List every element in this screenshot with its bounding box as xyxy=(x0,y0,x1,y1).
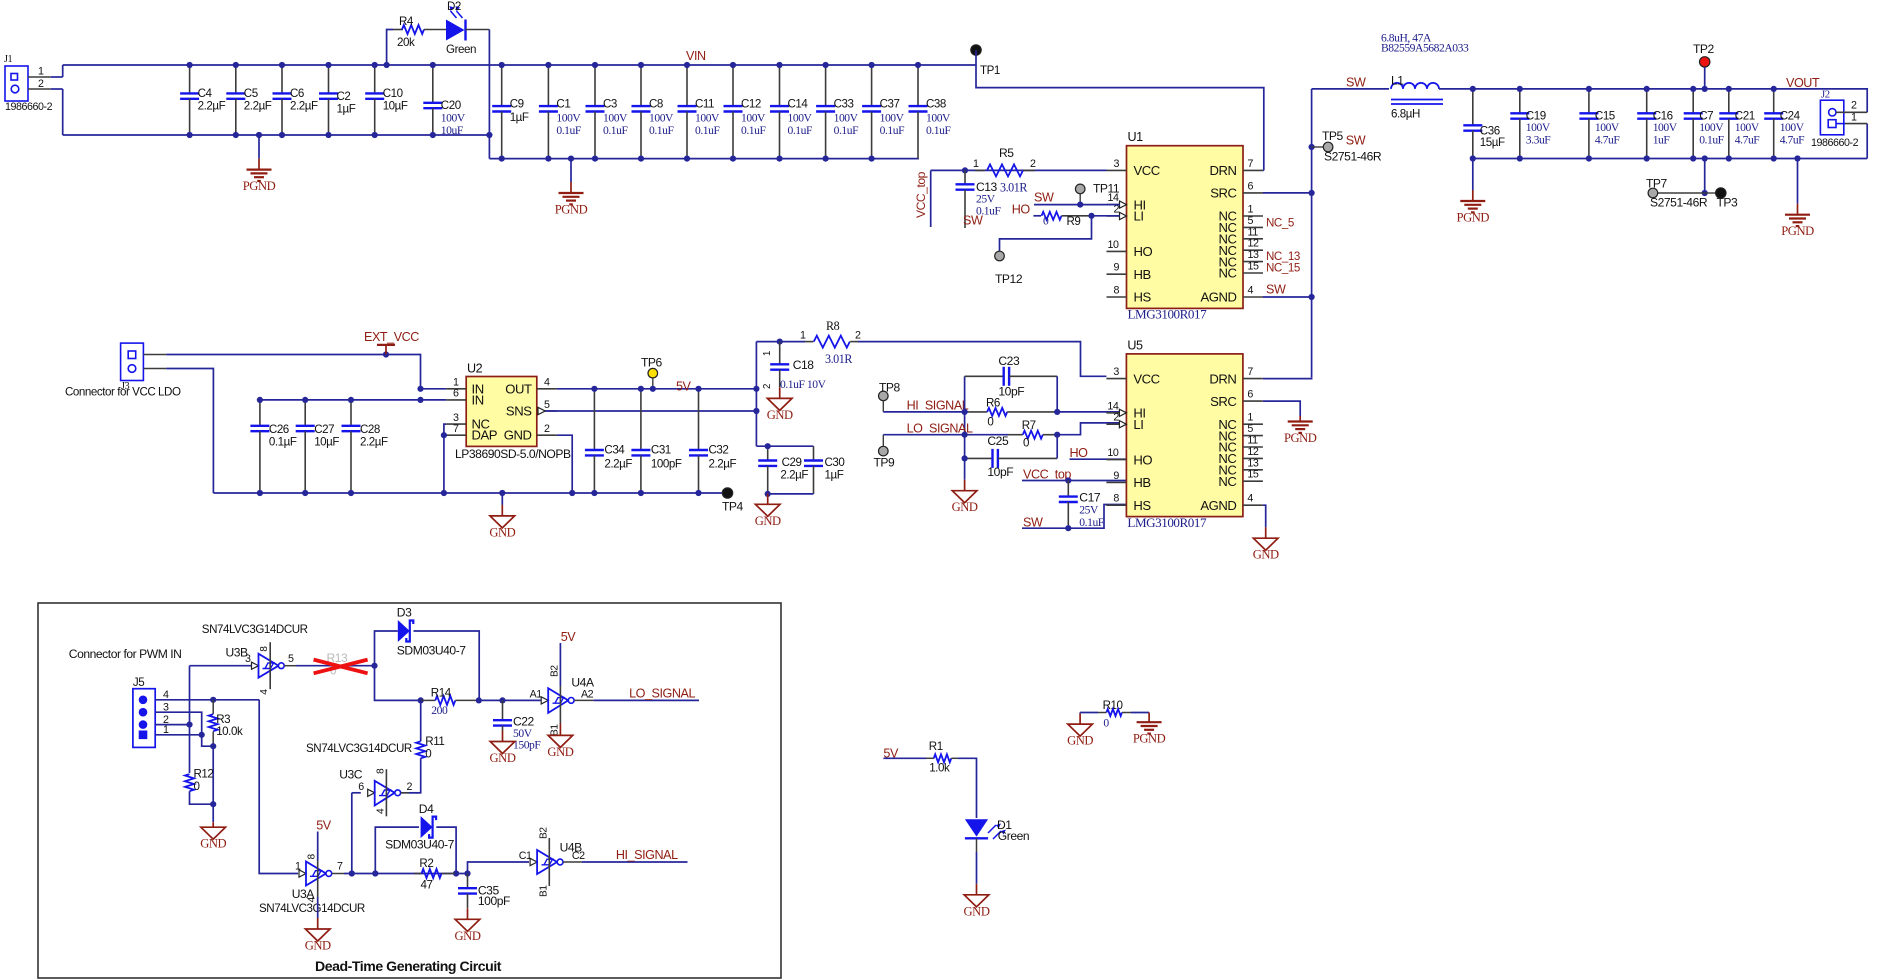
svg-text:GND: GND xyxy=(1253,548,1279,562)
svg-text:1.0k: 1.0k xyxy=(929,762,950,775)
svg-text:7: 7 xyxy=(1247,366,1253,378)
svg-text:10: 10 xyxy=(1108,239,1119,251)
svg-text:AGND: AGND xyxy=(1200,498,1236,513)
svg-text:NC: NC xyxy=(1218,266,1236,281)
svg-text:5V: 5V xyxy=(676,380,692,394)
svg-text:R12: R12 xyxy=(194,768,214,781)
svg-text:6.8µH: 6.8µH xyxy=(1391,108,1420,121)
svg-text:9: 9 xyxy=(1114,262,1120,274)
svg-text:8: 8 xyxy=(375,768,386,774)
svg-text:0: 0 xyxy=(425,748,431,761)
svg-text:NC: NC xyxy=(1218,474,1236,489)
svg-text:D4: D4 xyxy=(419,802,434,816)
svg-text:4.7uF: 4.7uF xyxy=(1735,134,1760,147)
svg-text:8: 8 xyxy=(259,646,270,652)
svg-text:C29: C29 xyxy=(782,456,802,469)
svg-text:7: 7 xyxy=(337,861,343,873)
svg-text:0.1uF: 0.1uF xyxy=(788,124,813,137)
svg-text:A2: A2 xyxy=(581,689,594,701)
svg-text:B2: B2 xyxy=(538,827,549,839)
svg-text:B1: B1 xyxy=(538,885,549,897)
svg-text:2: 2 xyxy=(38,78,44,90)
svg-text:D2: D2 xyxy=(447,0,461,13)
svg-text:3.3uF: 3.3uF xyxy=(1526,134,1551,147)
svg-text:TP12: TP12 xyxy=(995,272,1023,286)
svg-text:2: 2 xyxy=(544,423,550,435)
svg-text:HI_SIGNAL: HI_SIGNAL xyxy=(616,848,678,862)
svg-text:TP1: TP1 xyxy=(980,64,1000,77)
svg-text:8: 8 xyxy=(1113,493,1119,505)
svg-text:C5: C5 xyxy=(244,87,258,100)
svg-text:0.1uF: 0.1uF xyxy=(1699,134,1724,147)
svg-text:0.1uF: 0.1uF xyxy=(1079,516,1104,529)
svg-text:J5: J5 xyxy=(133,676,144,689)
svg-text:C23: C23 xyxy=(998,354,1020,368)
svg-text:1: 1 xyxy=(38,66,44,78)
svg-text:SW: SW xyxy=(1346,76,1366,90)
svg-text:DRN: DRN xyxy=(1209,371,1236,386)
svg-text:0.1µF: 0.1µF xyxy=(269,436,297,449)
svg-text:Green: Green xyxy=(998,829,1029,843)
svg-text:2.2µF: 2.2µF xyxy=(709,458,737,471)
svg-text:100V: 100V xyxy=(1595,121,1620,134)
svg-text:TP2: TP2 xyxy=(1693,42,1715,56)
svg-text:DAP: DAP xyxy=(472,428,498,443)
svg-text:R11: R11 xyxy=(425,735,444,748)
svg-text:25V: 25V xyxy=(1079,504,1099,517)
svg-text:TP9: TP9 xyxy=(874,456,896,470)
svg-text:GND: GND xyxy=(455,929,481,943)
svg-text:1uF: 1uF xyxy=(1653,134,1671,147)
svg-text:HS: HS xyxy=(1133,498,1151,513)
svg-text:2.2µF: 2.2µF xyxy=(780,469,808,482)
svg-text:2: 2 xyxy=(1113,412,1119,424)
svg-text:10pF: 10pF xyxy=(987,465,1013,479)
svg-text:1: 1 xyxy=(1247,412,1253,424)
svg-text:3: 3 xyxy=(1113,366,1119,378)
svg-text:TP8: TP8 xyxy=(879,381,901,395)
svg-text:B2: B2 xyxy=(550,665,561,677)
svg-text:4: 4 xyxy=(259,689,270,695)
svg-text:U4A: U4A xyxy=(571,676,595,690)
svg-text:R8: R8 xyxy=(826,319,840,333)
svg-text:GND: GND xyxy=(504,428,532,443)
svg-text:GND: GND xyxy=(489,525,515,539)
svg-text:100pF: 100pF xyxy=(651,458,682,471)
svg-text:LO_SIGNAL: LO_SIGNAL xyxy=(629,687,695,701)
svg-text:VCC: VCC xyxy=(1134,163,1160,178)
svg-text:1µF: 1µF xyxy=(825,469,844,482)
svg-text:0.1uF: 0.1uF xyxy=(834,124,859,137)
svg-text:6: 6 xyxy=(1248,180,1254,192)
svg-text:GND: GND xyxy=(767,408,793,422)
svg-text:14: 14 xyxy=(1107,400,1118,412)
svg-text:A1: A1 xyxy=(530,689,543,701)
svg-text:5: 5 xyxy=(544,399,550,411)
svg-text:C14: C14 xyxy=(788,98,809,111)
svg-text:PGND: PGND xyxy=(1457,211,1490,225)
svg-text:100V: 100V xyxy=(695,112,720,125)
svg-text:5: 5 xyxy=(288,653,294,665)
svg-text:EXT_VCC: EXT_VCC xyxy=(364,330,419,344)
svg-text:2: 2 xyxy=(1030,158,1036,170)
svg-text:10µF: 10µF xyxy=(383,100,408,113)
svg-text:C34: C34 xyxy=(604,444,625,457)
svg-text:SN74LVC3G14DCUR: SN74LVC3G14DCUR xyxy=(259,902,365,915)
svg-text:0.1uF: 0.1uF xyxy=(695,124,720,137)
svg-text:SNS: SNS xyxy=(506,404,532,419)
svg-text:C17: C17 xyxy=(1079,491,1101,505)
svg-text:150pF: 150pF xyxy=(513,739,541,752)
svg-text:C37: C37 xyxy=(880,98,900,111)
svg-text:J1: J1 xyxy=(4,54,13,65)
svg-text:0.1uF: 0.1uF xyxy=(603,124,628,137)
svg-text:SRC: SRC xyxy=(1210,394,1236,409)
svg-text:GND: GND xyxy=(952,500,978,514)
svg-text:SN74LVC3G14DCUR: SN74LVC3G14DCUR xyxy=(202,623,308,636)
svg-text:C11: C11 xyxy=(695,98,714,111)
svg-text:1986660-2: 1986660-2 xyxy=(5,101,53,113)
svg-text:L1: L1 xyxy=(1391,74,1404,88)
svg-text:4.7uF: 4.7uF xyxy=(1595,134,1620,147)
svg-text:3.01R: 3.01R xyxy=(1000,181,1028,195)
svg-text:C1: C1 xyxy=(556,98,570,111)
svg-text:7: 7 xyxy=(1248,158,1254,170)
svg-text:100V: 100V xyxy=(788,112,813,125)
svg-text:15: 15 xyxy=(1247,469,1258,481)
svg-text:4: 4 xyxy=(544,377,550,389)
svg-text:100V: 100V xyxy=(1699,121,1724,134)
svg-text:R14: R14 xyxy=(431,687,452,700)
svg-text:12: 12 xyxy=(1248,238,1259,250)
svg-text:LMG3100R017: LMG3100R017 xyxy=(1127,515,1207,530)
svg-text:C28: C28 xyxy=(360,423,380,436)
svg-text:HO: HO xyxy=(1012,203,1031,217)
svg-text:U3C: U3C xyxy=(339,768,363,782)
svg-text:S2751-46R: S2751-46R xyxy=(1324,150,1382,164)
svg-text:R7: R7 xyxy=(1022,419,1036,432)
svg-text:1: 1 xyxy=(1851,111,1857,123)
svg-text:100V: 100V xyxy=(603,112,628,125)
svg-text:200: 200 xyxy=(431,704,448,717)
svg-text:SW: SW xyxy=(1346,134,1366,148)
svg-text:Dead-Time Generating Circuit: Dead-Time Generating Circuit xyxy=(315,958,502,974)
svg-text:R2: R2 xyxy=(419,857,433,870)
svg-text:B1: B1 xyxy=(550,724,561,736)
svg-text:10µF: 10µF xyxy=(314,436,339,449)
svg-text:TP7: TP7 xyxy=(1646,177,1668,191)
svg-text:0: 0 xyxy=(1043,215,1049,228)
svg-text:100V: 100V xyxy=(741,112,766,125)
svg-text:4: 4 xyxy=(1247,493,1253,505)
svg-text:15µF: 15µF xyxy=(1480,136,1505,149)
svg-text:C10: C10 xyxy=(383,87,403,100)
svg-text:C4: C4 xyxy=(198,87,213,100)
svg-text:2.2µF: 2.2µF xyxy=(244,100,272,113)
svg-text:LP38690SD-5.0/NOPB: LP38690SD-5.0/NOPB xyxy=(455,447,571,461)
svg-text:VCC_top: VCC_top xyxy=(1023,468,1071,482)
svg-text:4: 4 xyxy=(1248,285,1254,297)
svg-text:SW: SW xyxy=(1266,283,1286,297)
svg-text:0.1uF: 0.1uF xyxy=(880,124,905,137)
svg-text:100V: 100V xyxy=(1526,121,1551,134)
svg-text:HO: HO xyxy=(1133,452,1152,467)
svg-text:2.2µF: 2.2µF xyxy=(604,458,632,471)
svg-text:6: 6 xyxy=(453,388,459,400)
svg-text:4.7uF: 4.7uF xyxy=(1780,134,1805,147)
svg-text:DRN: DRN xyxy=(1209,163,1236,178)
svg-text:GND: GND xyxy=(547,745,573,759)
svg-text:1: 1 xyxy=(800,330,806,342)
svg-text:10uF: 10uF xyxy=(441,124,464,137)
svg-text:1986660-2: 1986660-2 xyxy=(1811,137,1859,149)
svg-text:C27: C27 xyxy=(314,423,334,436)
svg-text:10: 10 xyxy=(1107,447,1118,459)
svg-text:9: 9 xyxy=(1113,470,1119,482)
svg-text:C20: C20 xyxy=(441,99,461,112)
svg-text:HS: HS xyxy=(1134,290,1152,305)
svg-text:6: 6 xyxy=(358,781,364,793)
svg-text:B82559A5682A033: B82559A5682A033 xyxy=(1381,42,1469,55)
svg-text:3: 3 xyxy=(1114,158,1120,170)
svg-text:5: 5 xyxy=(1248,215,1254,227)
svg-text:100V: 100V xyxy=(1653,121,1678,134)
svg-text:C3: C3 xyxy=(603,98,617,111)
svg-text:12: 12 xyxy=(1247,446,1258,458)
svg-text:VCC: VCC xyxy=(1133,371,1159,386)
svg-text:U1: U1 xyxy=(1128,130,1144,144)
svg-text:100V: 100V xyxy=(926,112,951,125)
svg-text:LMG3100R017: LMG3100R017 xyxy=(1128,307,1208,322)
svg-text:TP5: TP5 xyxy=(1322,129,1344,143)
svg-text:C12: C12 xyxy=(741,98,761,111)
svg-text:100V: 100V xyxy=(1735,121,1760,134)
svg-text:2.2µF: 2.2µF xyxy=(360,436,388,449)
svg-text:1µF: 1µF xyxy=(337,103,356,116)
svg-text:13: 13 xyxy=(1247,457,1258,469)
svg-text:SRC: SRC xyxy=(1210,186,1236,201)
svg-text:SDM03U40-7: SDM03U40-7 xyxy=(397,644,466,658)
svg-text:47: 47 xyxy=(421,879,433,892)
svg-text:100V: 100V xyxy=(441,111,466,124)
svg-text:U2: U2 xyxy=(467,362,483,376)
svg-text:SW: SW xyxy=(963,214,983,228)
svg-text:Connector for PWM IN: Connector for PWM IN xyxy=(69,647,182,661)
svg-text:0.1uF: 0.1uF xyxy=(741,124,766,137)
svg-text:1: 1 xyxy=(295,861,301,873)
svg-text:VIN: VIN xyxy=(686,49,706,63)
svg-text:GND: GND xyxy=(1067,734,1093,748)
svg-text:2: 2 xyxy=(855,330,861,342)
svg-text:S2751-46R: S2751-46R xyxy=(1650,196,1708,210)
svg-text:Connector for VCC LDO: Connector for VCC LDO xyxy=(65,386,181,399)
svg-text:0: 0 xyxy=(1103,717,1109,730)
svg-text:R1: R1 xyxy=(929,740,943,753)
svg-text:100V: 100V xyxy=(556,112,581,125)
svg-text:100V: 100V xyxy=(880,112,905,125)
svg-text:GND: GND xyxy=(305,939,331,953)
svg-text:LI: LI xyxy=(1133,417,1143,432)
svg-text:HB: HB xyxy=(1133,475,1151,490)
svg-text:TP4: TP4 xyxy=(722,500,744,514)
svg-text:C30: C30 xyxy=(825,456,845,469)
svg-text:C26: C26 xyxy=(269,423,289,436)
svg-text:6: 6 xyxy=(1247,389,1253,401)
svg-text:1: 1 xyxy=(1248,204,1254,216)
svg-text:LI: LI xyxy=(1134,209,1144,224)
svg-text:1µF: 1µF xyxy=(510,111,529,124)
svg-text:8: 8 xyxy=(1114,285,1120,297)
svg-text:C31: C31 xyxy=(651,444,671,457)
svg-text:R4: R4 xyxy=(399,15,414,28)
svg-text:HO: HO xyxy=(1134,244,1153,259)
svg-text:C33: C33 xyxy=(834,98,854,111)
svg-text:5V: 5V xyxy=(316,819,332,833)
svg-text:HI_SIGNAL: HI_SIGNAL xyxy=(907,399,969,413)
svg-text:2: 2 xyxy=(407,781,413,793)
svg-text:U5: U5 xyxy=(1127,338,1143,352)
svg-text:10pF: 10pF xyxy=(998,385,1024,399)
svg-text:15: 15 xyxy=(1248,261,1259,273)
svg-text:0: 0 xyxy=(194,780,200,793)
svg-text:PGND: PGND xyxy=(1781,224,1814,238)
svg-text:VCC_top: VCC_top xyxy=(914,171,928,218)
svg-text:5: 5 xyxy=(1247,423,1253,435)
svg-text:4: 4 xyxy=(307,897,318,903)
svg-text:2: 2 xyxy=(1851,100,1857,112)
svg-text:AGND: AGND xyxy=(1200,290,1236,305)
svg-text:C25: C25 xyxy=(987,434,1009,448)
svg-text:PGND: PGND xyxy=(1284,431,1317,445)
svg-text:0.1uF: 0.1uF xyxy=(926,124,951,137)
svg-text:U4B: U4B xyxy=(560,841,583,855)
svg-text:SW: SW xyxy=(1034,191,1054,205)
svg-text:0: 0 xyxy=(1023,437,1029,450)
svg-text:C9: C9 xyxy=(510,98,524,111)
svg-text:D3: D3 xyxy=(397,606,412,620)
svg-text:IN: IN xyxy=(472,392,484,407)
svg-text:100V: 100V xyxy=(649,112,674,125)
svg-text:1: 1 xyxy=(762,351,773,356)
svg-text:11: 11 xyxy=(1247,435,1258,447)
svg-text:20k: 20k xyxy=(397,36,415,49)
svg-text:0.1uF: 0.1uF xyxy=(649,124,674,137)
svg-text:SDM03U40-7: SDM03U40-7 xyxy=(385,838,454,852)
svg-text:R5: R5 xyxy=(999,146,1014,160)
svg-text:0: 0 xyxy=(987,416,993,429)
svg-text:J2: J2 xyxy=(1821,89,1830,101)
svg-text:VOUT: VOUT xyxy=(1786,76,1820,90)
svg-text:TP6: TP6 xyxy=(641,356,663,370)
svg-text:OUT: OUT xyxy=(505,381,532,396)
svg-text:0.1uF: 0.1uF xyxy=(556,124,581,137)
svg-text:13: 13 xyxy=(1248,249,1259,261)
svg-text:100V: 100V xyxy=(834,112,859,125)
svg-text:100pF: 100pF xyxy=(478,894,510,908)
svg-text:11: 11 xyxy=(1248,226,1259,238)
svg-text:SN74LVC3G14DCUR: SN74LVC3G14DCUR xyxy=(306,742,412,755)
svg-text:PGND: PGND xyxy=(555,203,588,217)
svg-text:2.2µF: 2.2µF xyxy=(198,100,226,113)
svg-text:C18: C18 xyxy=(793,358,815,372)
svg-text:7: 7 xyxy=(453,423,459,435)
svg-text:0.1uF 10V: 0.1uF 10V xyxy=(780,378,827,391)
svg-text:C2: C2 xyxy=(337,90,351,103)
svg-text:100V: 100V xyxy=(1780,121,1805,134)
svg-text:NC_15: NC_15 xyxy=(1266,262,1300,275)
svg-text:3.01R: 3.01R xyxy=(825,352,853,366)
svg-text:C8: C8 xyxy=(649,98,663,111)
svg-text:5V: 5V xyxy=(561,630,577,644)
svg-text:R9: R9 xyxy=(1067,215,1081,228)
svg-text:GND: GND xyxy=(755,514,781,528)
svg-text:3: 3 xyxy=(245,653,251,665)
svg-text:HB: HB xyxy=(1134,267,1152,282)
svg-text:TP11: TP11 xyxy=(1093,182,1120,196)
svg-text:HO: HO xyxy=(1070,446,1089,460)
svg-text:Green: Green xyxy=(446,43,476,56)
svg-text:10.0k: 10.0k xyxy=(216,725,243,738)
svg-text:4: 4 xyxy=(375,808,386,814)
svg-text:NC_5: NC_5 xyxy=(1266,217,1294,230)
svg-text:C38: C38 xyxy=(926,98,946,111)
svg-text:2: 2 xyxy=(762,384,773,389)
svg-text:GND: GND xyxy=(964,904,990,918)
svg-text:8: 8 xyxy=(307,854,318,860)
svg-text:GND: GND xyxy=(490,751,516,765)
svg-text:TP3: TP3 xyxy=(1717,196,1739,210)
svg-text:C32: C32 xyxy=(709,444,729,457)
svg-text:2.2µF: 2.2µF xyxy=(290,100,318,113)
svg-text:PGND: PGND xyxy=(1133,732,1166,746)
svg-text:1: 1 xyxy=(973,158,979,170)
svg-text:GND: GND xyxy=(200,837,226,851)
svg-text:C6: C6 xyxy=(290,87,304,100)
svg-text:PGND: PGND xyxy=(243,179,276,193)
